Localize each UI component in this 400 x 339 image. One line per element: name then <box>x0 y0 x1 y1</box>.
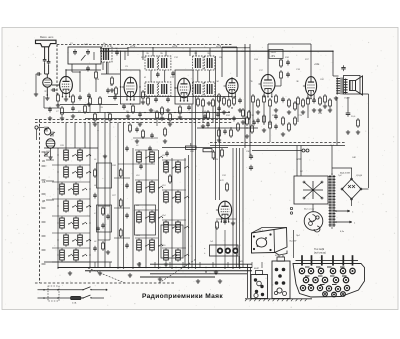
IF transformer T3 section B <box>204 56 215 70</box>
wire v1 bias <box>43 96 45 108</box>
wire HT bus upper segment <box>128 47 250 49</box>
ground on bus b <box>128 273 132 277</box>
resistor R24b filler <box>129 123 132 133</box>
capacitor C4 inside box <box>86 49 90 55</box>
cans base line <box>245 298 312 300</box>
switch contact S10 <box>68 222 73 225</box>
ground agc a <box>93 122 97 126</box>
wire T1 down <box>106 62 108 74</box>
resistor R3a <box>61 106 64 116</box>
resistor R23 corridor <box>119 168 122 178</box>
ground under V5 <box>256 110 260 114</box>
svg-text:51: 51 <box>56 67 58 69</box>
output transformer T4 primary <box>336 78 340 95</box>
capacitor C26 bank <box>93 193 97 199</box>
wire ps drop b <box>300 146 302 177</box>
resistor R30 middle <box>226 182 229 192</box>
switch contact S12 <box>72 239 77 242</box>
switch contact S19 <box>158 186 163 189</box>
coil L31 osc bank <box>176 248 181 262</box>
ground row c <box>281 132 285 136</box>
svg-text:1ГД-9: 1ГД-9 <box>344 98 350 100</box>
resistor R14a row <box>218 128 221 138</box>
wire screen bus y96 <box>108 96 232 98</box>
wire HT bus drop x250 <box>249 44 251 155</box>
wire HT bus drop x120 <box>120 51 122 70</box>
switch contact S3 <box>86 154 91 157</box>
switch contact S26 <box>172 196 177 199</box>
resistor chain under V5 e <box>275 94 278 104</box>
resistor chain under V5 g <box>294 101 297 111</box>
socket hole c <box>233 248 238 253</box>
svg-text:Л1: Л1 <box>43 91 47 93</box>
resistor R14d row <box>251 124 254 134</box>
svg-text:С1: С1 <box>70 43 73 45</box>
antenna coil L1 <box>43 78 52 87</box>
ground under V1 cathode <box>64 97 68 101</box>
junction dot agc 8 <box>189 112 190 113</box>
wire V5 right link <box>280 80 282 86</box>
wire V5 links down <box>263 104 265 125</box>
ground under V4 <box>222 110 226 114</box>
wire bank row links <box>52 164 90 166</box>
corridor ties <box>114 177 130 179</box>
IF transformer T3 section A <box>193 56 204 70</box>
socket pin chart r4-2 <box>332 292 337 297</box>
capacitor C17b row <box>274 124 278 130</box>
junction dot bus 9 <box>232 267 233 268</box>
ground agc c <box>168 122 172 126</box>
socket pin chart r1-3 <box>318 268 323 273</box>
power transformer core <box>331 173 333 229</box>
wire feeder column 2 <box>235 148 237 268</box>
capacitor C2 in lead <box>47 59 51 65</box>
resistor R19b right <box>357 118 360 128</box>
ground under V3 <box>178 115 182 119</box>
switch contact S15 <box>82 254 87 257</box>
ground on bus a <box>98 271 102 275</box>
wire bank stub90 <box>89 123 91 149</box>
wire middle verticals x219 <box>219 97 221 201</box>
wire left rf row <box>44 107 60 109</box>
switch contact S9 <box>86 205 91 208</box>
IF transformer T2 section A <box>145 56 157 70</box>
svg-text:L11: L11 <box>136 205 139 207</box>
resistor R13b chain <box>207 110 210 120</box>
ground osc bank a <box>137 262 141 266</box>
wire T1 drop 2 <box>102 62 104 70</box>
resistor R6a right of V2 <box>142 90 145 100</box>
ground rf c <box>71 114 75 118</box>
wire osc row links <box>135 149 158 151</box>
terminal arrow b <box>335 210 337 212</box>
coil L2 band bank <box>64 148 69 162</box>
IF transformer T2 lower section A <box>145 82 157 96</box>
dots row <box>218 127 219 128</box>
resistor R29 vertical <box>212 150 215 160</box>
tube V5 6Ф3П triode <box>259 74 276 97</box>
output transformer T4 core <box>340 78 342 95</box>
tiny value labels scatter <box>43 43 363 263</box>
capacitor C27b filler <box>150 133 154 139</box>
resistor R23a corridor <box>119 198 122 208</box>
output transformer T4 secondary <box>344 79 348 94</box>
ground left stub <box>34 92 38 96</box>
switch contact S22 <box>145 244 150 247</box>
switch contact S2 <box>72 154 77 157</box>
wire V7 drop <box>224 230 226 268</box>
junction dot agc 5 <box>144 112 145 113</box>
wire transformer feed <box>331 146 333 169</box>
tube can V2 sketch <box>251 275 268 299</box>
wire feeder column 3 <box>239 148 241 268</box>
wire speaker right down <box>368 94 370 188</box>
svg-text:СВ: СВ <box>42 181 46 184</box>
coil L25 osc bank <box>176 160 181 174</box>
wire V7 drop b <box>215 226 217 268</box>
capacitor C16a <box>217 106 221 112</box>
coil L9 band bank <box>78 199 83 213</box>
dashed chassis boundary upper <box>35 119 232 121</box>
junction dots V4 <box>231 107 232 108</box>
ground filler c <box>103 154 107 158</box>
capacitor C20 top of transformer <box>341 65 345 71</box>
capacitor C16b <box>232 116 235 122</box>
junction dot agc 2 <box>97 112 98 113</box>
wire under V6 links <box>297 106 299 122</box>
wire filler tie <box>133 137 158 139</box>
coil L16 osc bank <box>137 150 142 164</box>
wire antenna lead-in left <box>44 47 46 59</box>
comb tick 5 <box>342 255 344 265</box>
wire row y128 <box>197 127 258 129</box>
switch contact S28 <box>172 226 177 229</box>
capacitor C10 below V2 <box>122 104 126 110</box>
wire bus right link ps <box>252 263 293 265</box>
loudspeaker cone <box>356 76 363 95</box>
resistor R13c chain <box>212 98 215 108</box>
capacitor C8a <box>48 107 52 113</box>
wire bank feed stubs <box>65 123 67 149</box>
wire fringe links <box>89 106 91 113</box>
resistor R17 under V6 a <box>297 96 300 106</box>
svg-text:51: 51 <box>144 77 146 79</box>
resistor R24 filler <box>142 129 145 139</box>
coil L27 osc bank <box>176 190 181 204</box>
wire box to tube <box>72 71 80 73</box>
capacitor C1 in lead <box>43 57 47 63</box>
ground under V6 b <box>312 108 316 112</box>
resistor R14b row <box>230 128 233 138</box>
dashed RF-unit boundary left <box>56 45 58 97</box>
tube V3 6К4П <box>175 78 190 101</box>
ground under V6 c <box>318 108 322 112</box>
switch contact S5 <box>86 171 91 174</box>
coil L19 osc bank <box>150 180 155 194</box>
coil L3 band bank <box>78 148 83 162</box>
wire stub x128b <box>127 48 129 56</box>
socket pin chart r2-5 <box>343 277 348 282</box>
resistor R11 under V4 <box>223 96 226 106</box>
wire HT bus drop x166 <box>165 51 167 56</box>
coil L15 band bank <box>74 248 79 262</box>
ground under T2 <box>149 108 153 112</box>
dashed RF-unit boundary top <box>57 44 232 46</box>
wire selector to holder <box>312 204 314 212</box>
capacitor C22 <box>138 112 142 118</box>
coil L14 band bank <box>60 248 65 262</box>
coil L22 osc bank <box>137 238 142 252</box>
capacitor C28 bank <box>93 246 97 252</box>
capacitor C11b <box>171 71 174 77</box>
capacitor C5a below box <box>86 66 90 72</box>
capacitor C27 bank <box>96 226 100 232</box>
resistor R14f row <box>288 122 291 132</box>
comb tick 4 <box>332 255 334 265</box>
resistor R13a chain <box>202 98 205 108</box>
wire chart to ps link <box>293 230 295 258</box>
resistor R5 left of V2 <box>115 86 118 96</box>
resistor R9 under T3 <box>197 97 200 107</box>
tube V6 6Ф3П pentode <box>303 77 317 100</box>
junction dot bus 3 <box>145 267 146 268</box>
ground fringe h <box>323 104 327 108</box>
comb tick 2 <box>311 255 313 265</box>
dashed chassis boundary right half <box>210 142 345 144</box>
junction dots V2 <box>120 86 121 87</box>
wire bank right ties <box>98 205 110 207</box>
capacitor C12 under T2 <box>154 97 158 103</box>
coil L11 band bank <box>74 216 79 230</box>
coil L30 osc bank <box>164 248 169 262</box>
IF transformer T3 lower A <box>193 82 204 96</box>
oscillator coil box <box>68 47 101 64</box>
switch contact S25 <box>184 166 189 169</box>
svg-text:С31: С31 <box>222 175 226 177</box>
socket pin chart r3-5 <box>335 286 340 291</box>
resistor R4a <box>111 76 114 86</box>
wire filler row164 <box>118 163 155 165</box>
ground filler a <box>135 139 139 143</box>
resistor fringe a <box>89 96 92 106</box>
ground under T3 <box>207 101 211 105</box>
shield box around V2 <box>121 70 141 104</box>
wire T1-V2 link <box>101 73 120 75</box>
capacitor C7 beside V1 <box>78 95 82 101</box>
wire osc trio b <box>191 105 193 269</box>
tube V7 indicator <box>216 201 232 222</box>
wire HT bus drop x190 <box>189 48 191 56</box>
trimmer cap beside T1 <box>115 50 119 56</box>
wire bus y48 left <box>100 47 128 49</box>
mains wire upper end <box>91 289 104 291</box>
socket chart comb line <box>296 259 359 261</box>
ground under V5 c <box>287 110 291 114</box>
wire HT bus drop x108 <box>107 62 109 74</box>
ground row a <box>217 138 221 142</box>
junction dot bus 1 <box>89 267 90 268</box>
socket pin chart r4-3 <box>341 292 346 297</box>
ground under R1 <box>56 103 60 107</box>
ground under T2 b <box>166 108 170 112</box>
capacitor C26b bank right col <box>106 214 110 220</box>
dashed pointer diagonal left <box>88 268 125 283</box>
wire feeder column 1 <box>232 148 234 268</box>
switch contact S20 <box>145 216 150 219</box>
capacitor C16 under V4 <box>238 98 242 104</box>
coil L28 osc bank <box>164 220 169 234</box>
resistor R25a bank right col <box>102 206 105 216</box>
wire R0 down <box>95 80 97 92</box>
resistor R2 below V1 <box>72 94 75 104</box>
wire ps drop a <box>296 146 298 177</box>
trimmer C25a <box>44 152 49 158</box>
ground T1 area <box>110 88 114 92</box>
switch wafer ticks left <box>42 152 46 264</box>
svg-text:Пр1: Пр1 <box>330 145 334 147</box>
capacitor C3 inside box <box>73 49 77 55</box>
capacitor C11 between T2 rows <box>156 72 160 78</box>
wire middle verticals x215 <box>215 56 217 200</box>
cans base hatching <box>245 299 307 301</box>
switch contact S21 <box>158 216 163 219</box>
wire row link d <box>269 130 271 142</box>
capacitor C21 under V6 <box>312 98 316 104</box>
ground under R6a <box>141 100 145 104</box>
resistor R24a filler <box>164 127 167 137</box>
ground under V6 a <box>301 110 305 114</box>
resistor fringe d <box>156 110 159 120</box>
junction dot bus 7 <box>205 267 206 268</box>
junction dot bus 10 <box>239 267 240 268</box>
can V3 holes <box>275 268 279 272</box>
fuse holder face <box>304 212 323 231</box>
wire bottom bus 1 <box>58 267 252 269</box>
resistor R13e <box>237 122 240 132</box>
wire transformer top <box>331 168 333 175</box>
wire pot row <box>162 147 228 149</box>
capacitor C15a chain <box>206 122 210 128</box>
mains wire upper <box>38 289 84 291</box>
switch pole dash DV <box>46 199 52 201</box>
resistor R13 under V4 <box>233 96 236 106</box>
switch contact S23 <box>158 244 163 247</box>
ground under R7a <box>160 116 164 120</box>
dashed left border <box>39 120 41 284</box>
loudspeaker driver <box>350 81 356 91</box>
terminal arrow v <box>335 221 337 223</box>
coil L13 band bank <box>78 233 83 247</box>
dashed pointer diagonal right <box>159 259 196 283</box>
resistor R20 <box>94 112 97 122</box>
svg-text:ДВ: ДВ <box>42 200 46 203</box>
IF unit isometric box <box>252 228 288 254</box>
coil L23 osc bank <box>150 238 155 252</box>
wire bank vertical b <box>89 148 91 268</box>
wire HT bus drop x143 <box>142 51 144 60</box>
wire bridge bottom <box>351 199 353 206</box>
resistor R21 <box>109 112 112 122</box>
resistor R14g row <box>294 116 297 126</box>
coil L21 osc bank <box>150 210 155 224</box>
resistor R19a under V6 <box>319 96 322 106</box>
oscillator section KPE <box>46 139 55 149</box>
svg-text:6Ф1П: 6Ф1П <box>275 254 281 257</box>
switch contact S29 <box>184 226 189 229</box>
switch contact S24 <box>172 166 177 169</box>
capacitor C27c filler <box>125 146 129 152</box>
loudspeaker box <box>344 76 361 95</box>
capacitor C28a corridor <box>125 183 129 189</box>
wire speaker top link <box>333 75 339 77</box>
wire bank stub98 <box>97 123 99 132</box>
capacitor C31a under V7 <box>223 219 227 225</box>
capacitor C18a <box>286 72 290 78</box>
IF transformer T2 section B <box>159 56 171 70</box>
capacitor C30 middle <box>249 154 253 160</box>
wire h link v5 <box>252 104 254 122</box>
junction dot agc 6 <box>159 112 160 113</box>
switch contact S4 <box>72 171 77 174</box>
fuse F1 <box>71 296 82 299</box>
phono jack circles <box>302 149 305 152</box>
svg-text:Внеш. ант.: Внеш. ант. <box>40 35 54 39</box>
svg-text:(вид снизу): (вид снизу) <box>314 252 326 255</box>
capacitor fringe c <box>113 95 117 101</box>
junction dots V1 area <box>65 69 66 70</box>
ground on bus f <box>158 277 162 281</box>
wire bank vertical c <box>97 130 99 268</box>
svg-text:6К4П: 6К4П <box>254 267 260 270</box>
mains wire lower end <box>91 297 104 299</box>
wire output loop right <box>332 51 334 76</box>
ground fringe i <box>328 108 332 112</box>
wire corridor vertical a <box>117 123 119 269</box>
ground filler b <box>163 139 167 143</box>
resistor fringe i <box>329 98 332 108</box>
resistor R1 below V1 <box>57 93 60 103</box>
wire V5 anode up <box>267 44 269 74</box>
resistor R25b bank right col <box>102 241 105 251</box>
comb tick 3 <box>321 255 323 265</box>
ground under C7a <box>87 102 91 106</box>
wire AGC bus <box>60 112 230 114</box>
wire bottom bus 1b <box>150 263 252 265</box>
switch contact S6 <box>68 188 73 191</box>
resistor R18 under V6 b <box>302 98 305 108</box>
switch contact S27 <box>184 196 189 199</box>
ground row d <box>262 128 266 132</box>
resistor R0 below box <box>95 70 98 80</box>
resistor R14e row <box>282 116 285 126</box>
wire V1 anode up <box>65 70 67 76</box>
socket pin chart r1-4 <box>330 268 335 273</box>
wire KPE down <box>50 148 52 155</box>
socket pin chart r1-2 <box>308 268 313 273</box>
IF unit face hole <box>256 238 266 247</box>
wire grid V1 <box>52 84 60 86</box>
ground under V2 <box>126 114 130 118</box>
tube can V3 sketch <box>272 261 290 299</box>
resistor R29a vertical <box>221 148 224 158</box>
resistor chain under V5 a <box>252 94 255 104</box>
wire anode loop V4 <box>231 77 233 79</box>
switch contact S11 <box>82 222 87 225</box>
socket hole b <box>225 248 230 253</box>
socket pin chart r3-2 <box>308 285 313 290</box>
dashed bottom border <box>35 282 175 284</box>
capacitor C17 row <box>223 129 227 135</box>
